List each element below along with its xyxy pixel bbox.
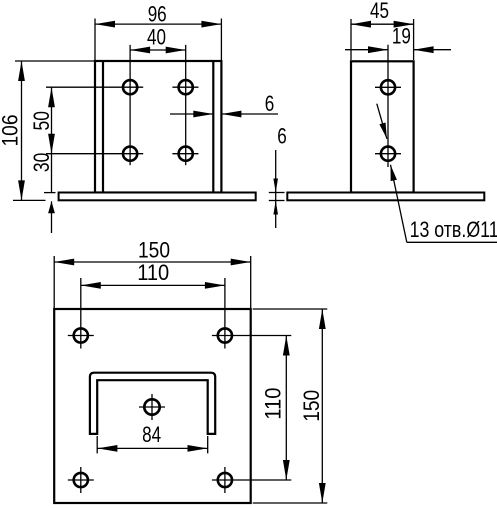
leader lower segment [391, 165, 407, 243]
bottom center hole [144, 399, 159, 414]
svg-text:84: 84 [142, 422, 161, 447]
dimension line 45 [351, 23, 414, 25]
front view left flange inner line [102, 61, 104, 193]
side hole2 crosshair [375, 153, 401, 155]
dimension line 110 top [81, 284, 225, 286]
front view base plate [59, 193, 256, 201]
extension line 150 top left [53, 256, 55, 308]
dimension line 50 [51, 87, 53, 154]
base thickness dim line mid through section [275, 193, 277, 201]
bottom hole centerline column right [224, 278, 226, 349]
svg-text:6: 6 [265, 91, 275, 116]
side view base plate [287, 193, 484, 201]
dimension line 110 right [285, 336, 287, 481]
front view right flange inner line [212, 61, 214, 193]
svg-text:45: 45 [370, 0, 389, 23]
dimension line 84 [97, 447, 207, 449]
side hole centerline [387, 45, 389, 167]
extension line 106 bottom [13, 199, 46, 201]
base bottom tick mid [269, 200, 285, 202]
front hole row2 centerline right [172, 153, 198, 155]
front hole centerline column right [185, 45, 187, 165]
bottom top-right hole crosshair [212, 335, 291, 337]
bottom hole top-left [74, 328, 88, 342]
base thickness up arrow front left [51, 201, 53, 233]
side hole 2 [381, 147, 395, 161]
extension line 84 left [96, 436, 98, 453]
extension line 150 top right [250, 256, 252, 308]
svg-text:19: 19 [392, 24, 411, 49]
extension line 84 right [207, 436, 209, 453]
extension line right bottom corner [253, 502, 328, 504]
dimension line 96 [95, 23, 221, 25]
base thickness up arrow mid [275, 201, 277, 229]
front hole row1 centerline left [46, 86, 143, 88]
dimension line 150 right [321, 309, 323, 503]
bottom bottom-left hole crosshair h [68, 479, 94, 481]
dimension 6 flange right arrow [221, 113, 278, 115]
dimension 19 left arrow [345, 49, 388, 51]
svg-text:106: 106 [0, 115, 23, 147]
bottom hole bottom-right [218, 473, 232, 487]
dimension line 30 [51, 154, 53, 193]
extension line 96 left [94, 19, 96, 61]
svg-text:110: 110 [137, 260, 169, 285]
bottom bottom-left hole crosshair v [80, 467, 82, 493]
base thickness dim line mid [275, 150, 277, 193]
front view post outline [95, 61, 221, 193]
side hole1 crosshair [375, 86, 401, 88]
svg-text:13 отв.Ø11: 13 отв.Ø11 [410, 217, 497, 242]
dimension line 150 top [54, 261, 251, 263]
dimension 19 right arrow [414, 49, 451, 51]
extension line right top corner [253, 308, 328, 310]
leader upper segment [377, 104, 387, 139]
bottom center hole crosshair v [151, 394, 153, 420]
side view post outline [351, 61, 414, 192]
front hole bottom-left [123, 147, 137, 161]
bottom top-left hole crosshair [68, 335, 94, 337]
extension line 106 top [15, 60, 94, 62]
svg-text:96: 96 [148, 2, 167, 27]
front hole row2 centerline left [46, 153, 143, 155]
svg-text:6: 6 [277, 124, 287, 149]
svg-text:40: 40 [147, 25, 166, 50]
svg-text:30: 30 [29, 153, 54, 173]
bottom bottom-right hole crosshair v [224, 467, 226, 493]
base top tick front left [44, 192, 56, 194]
bottom hole bottom-left [74, 473, 88, 487]
extension line 96 right [220, 19, 222, 61]
bottom view U channel profile [90, 373, 215, 434]
leader underline [407, 241, 497, 243]
front hole top-right [179, 80, 193, 94]
front hole centerline column left [129, 45, 131, 165]
bottom hole centerline column left [80, 278, 82, 349]
side hole 1 [381, 80, 395, 94]
svg-text:110: 110 [261, 388, 286, 420]
front hole row1 centerline right [172, 86, 198, 88]
dimension line 106 [21, 61, 23, 200]
bottom view plate outline [54, 309, 251, 503]
extension line 45 left [350, 19, 352, 60]
front hole bottom-right [179, 147, 193, 161]
bottom hole top-right [218, 328, 232, 342]
svg-text:50: 50 [29, 111, 54, 131]
extension line 45 right [413, 19, 415, 60]
dimension 6 flange left arrow [170, 113, 213, 115]
svg-text:150: 150 [138, 237, 170, 262]
svg-text:150: 150 [299, 390, 324, 422]
bottom bottom-right hole crosshair h [212, 479, 291, 481]
dimension line 40 [130, 49, 186, 51]
front hole top-left [123, 80, 137, 94]
bottom center hole crosshair h [139, 406, 165, 408]
base top tick mid [269, 192, 285, 194]
